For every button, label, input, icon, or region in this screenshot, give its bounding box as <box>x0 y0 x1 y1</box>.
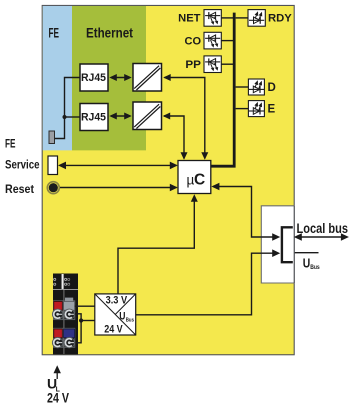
wire: RJ45-2 to PHY-2 (double arrow) <box>111 115 130 117</box>
LED CO (dual, arrows down) <box>204 32 221 49</box>
terminal 2.1 (red) <box>54 329 63 338</box>
svg-text:Reset: Reset <box>5 182 34 196</box>
wire: strap branch to supply <box>81 320 95 322</box>
svg-text:UL: UL <box>57 283 62 287</box>
module body background <box>42 5 294 354</box>
local bus interface bracket <box>282 227 293 262</box>
svg-text:D: D <box>268 82 276 94</box>
svg-text:U: U <box>303 255 311 270</box>
LED NET (dual, arrows down) <box>204 10 221 27</box>
Reset button <box>47 182 59 194</box>
svg-text:E: E <box>268 103 276 115</box>
svg-text:RJ45: RJ45 <box>81 72 106 84</box>
Ethernet PHY/isolation 1 <box>133 64 162 92</box>
svg-text:FE: FE <box>5 137 16 151</box>
svg-text:Ethernet: Ethernet <box>86 26 133 41</box>
junction strap <box>79 318 83 322</box>
wire: D stub <box>236 86 249 88</box>
FE functional earth connector <box>49 131 55 144</box>
wire: RDY stub <box>236 17 248 19</box>
svg-text:Bus: Bus <box>126 317 134 323</box>
RJ45 jack 2 <box>80 104 108 131</box>
LED RDY (single, arrows up) <box>248 10 265 27</box>
wire: uC to local bus interface (double arrow) <box>213 187 273 238</box>
svg-text:24 V: 24 V <box>47 390 69 406</box>
svg-text:C: C <box>194 171 205 188</box>
wire: UBus out line <box>295 252 319 254</box>
supply terminal block (black) <box>53 274 78 355</box>
wire: 3.3V supply to uC <box>118 197 194 294</box>
microcontroller uC <box>178 161 211 194</box>
junction FE branch <box>63 115 67 119</box>
FE zone (blue strip) <box>43 6 72 150</box>
svg-text:CO: CO <box>185 35 202 47</box>
LED E (single, arrows up) <box>248 101 264 117</box>
LED PP (dual, arrows down) <box>204 56 221 73</box>
screw 2.2 <box>64 337 74 347</box>
terminal 1.1 (red) <box>54 302 63 311</box>
Ethernet PHY/isolation 2 <box>133 102 162 130</box>
terminal 1.2 (grey) <box>65 298 73 302</box>
svg-text:Local bus: Local bus <box>297 220 349 236</box>
RJ45 jack 1 <box>80 64 108 91</box>
svg-text:RDY: RDY <box>268 13 292 25</box>
wire: Reset to uC <box>60 187 177 189</box>
svg-text:Service: Service <box>5 158 40 172</box>
wire: PHY-1 to uC (double arrow, corner) <box>165 78 205 159</box>
wire: Service to uC (double arrow) <box>60 164 177 166</box>
svg-text:NET: NET <box>178 13 201 25</box>
wire: terminal feed to supply (upper) <box>75 305 95 307</box>
screw 1.2 <box>64 309 74 319</box>
svg-text:RJ45: RJ45 <box>81 112 106 124</box>
wire: FE to RJ45 jacks <box>55 78 80 139</box>
Service button <box>48 156 58 175</box>
wire: E stub <box>236 108 249 110</box>
wire: RJ45-1 to PHY-1 (double arrow) <box>111 77 130 79</box>
wire: PP stub <box>221 63 233 65</box>
power supply converter <box>95 294 136 336</box>
svg-text:U: U <box>119 311 125 323</box>
wire: CO stub <box>221 40 233 42</box>
wire: PHY-2 to uC (double arrow, corner) <box>164 116 184 159</box>
Ethernet zone (green strip) <box>72 6 146 150</box>
UL supply arrow <box>56 368 58 379</box>
svg-text:FE: FE <box>49 26 60 41</box>
svg-text:3.3 V: 3.3 V <box>106 294 128 306</box>
svg-text:24 V: 24 V <box>104 324 123 336</box>
terminal column frames <box>54 301 75 348</box>
screw 2.1 <box>52 337 62 347</box>
wire: local bus double arrow <box>296 236 347 238</box>
local bus connector cutout <box>261 206 294 283</box>
wire: UBus supply to local bus interface <box>136 253 273 315</box>
wire: screw strap to supply (lower) <box>75 314 81 343</box>
svg-text:PP: PP <box>185 59 201 71</box>
LED D (single, arrows up) <box>248 79 264 95</box>
screw 1.1 <box>52 309 62 319</box>
right border segment over cutout <box>293 206 295 283</box>
svg-text:Bus: Bus <box>310 264 320 271</box>
terminal 2.2 (blue) <box>64 329 75 338</box>
wire: NET stub <box>221 17 233 19</box>
wire: LED bus (thick) from uC to LED column <box>211 13 234 167</box>
wire: FE branch to RJ45-2 <box>65 116 80 118</box>
